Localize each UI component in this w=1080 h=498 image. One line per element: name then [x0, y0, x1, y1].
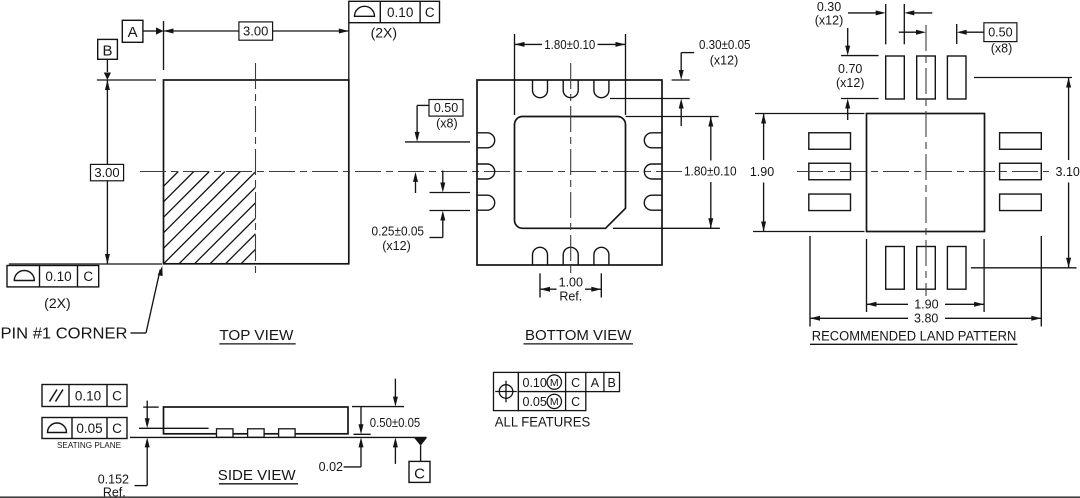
svg-text:1.80±0.10: 1.80±0.10	[544, 38, 595, 52]
svg-text:C: C	[571, 376, 580, 390]
bottom view vertical centerline	[570, 63, 572, 279]
dimension 3.00 horizontal boxed value	[239, 22, 273, 40]
land dimension 3.10 dimension line	[1068, 78, 1070, 161]
svg-text:SEATING PLANE: SEATING PLANE	[57, 440, 121, 450]
svg-text:ALL FEATURES: ALL FEATURES	[495, 415, 590, 430]
svg-text:M: M	[550, 396, 559, 408]
parallelism tolerance frame	[42, 385, 127, 407]
svg-text:BOTTOM VIEW: BOTTOM VIEW	[525, 327, 632, 344]
dimension 0.50 pitch leader and arrows	[417, 104, 429, 106]
svg-text:A: A	[128, 24, 138, 41]
svg-text:0.10: 0.10	[75, 388, 101, 403]
dimension 0.30 pin length leader and arrows	[681, 52, 694, 54]
profile tolerance frame bottom left	[7, 266, 99, 287]
bottom view bottom edge terminals (3 pins)	[533, 247, 548, 265]
dimension 0.30 pin length top tick	[672, 79, 690, 81]
svg-text:0.10: 0.10	[45, 269, 71, 284]
dimension 1.80 pad width dimension line	[515, 43, 543, 45]
dimension 3.00 horizontal left arrow	[164, 29, 174, 34]
svg-text:0.10: 0.10	[387, 5, 413, 20]
svg-text:TOP VIEW: TOP VIEW	[219, 327, 294, 344]
body bottom tick right	[354, 433, 371, 435]
svg-text:0.70: 0.70	[838, 62, 862, 76]
svg-text:SIDE VIEW: SIDE VIEW	[218, 467, 297, 484]
svg-text:C: C	[112, 388, 122, 403]
svg-text:1.80±0.10: 1.80±0.10	[684, 164, 737, 178]
svg-text:(2X): (2X)	[44, 295, 70, 311]
svg-text:1.00: 1.00	[559, 275, 583, 289]
svg-text:(x12): (x12)	[382, 239, 410, 253]
dimension 1.00 ref arrows	[540, 287, 550, 292]
land pattern bottom pads	[886, 247, 905, 290]
land dimension 0.30 arrows	[848, 12, 877, 14]
dimension 0.30 pin length lower extension	[610, 98, 690, 100]
svg-text:3.00: 3.00	[243, 24, 268, 39]
svg-text:B: B	[608, 376, 616, 390]
svg-text:C: C	[112, 421, 122, 436]
dimension 1.80 pad height extension lines	[626, 116, 719, 118]
dimension 3.00 vertical boxed value	[91, 164, 124, 180]
svg-text:0.05: 0.05	[76, 421, 102, 436]
dimension 0.50 pitch boxed value	[429, 100, 463, 117]
profile tolerance leader to corner	[348, 23, 350, 80]
datum C feature triangle	[414, 438, 427, 446]
svg-text:C: C	[425, 5, 435, 20]
svg-text:0.25±0.05: 0.25±0.05	[372, 224, 425, 238]
dimension 0.25 pin width extension lines	[430, 192, 471, 194]
land dimension 1.90 bottom arrows	[867, 302, 877, 307]
dimension 1.00 ref extension lines	[539, 273, 541, 297]
dimension 0.25 pin width arrows	[442, 171, 444, 184]
dimension 0.152 arrows	[146, 401, 148, 420]
land dimension 0.70 arrows	[847, 28, 849, 47]
dimension 1.80 pad height dimension line	[710, 117, 712, 161]
body top extension right	[352, 406, 404, 408]
dimension 3.00 horizontal right arrow	[339, 29, 349, 34]
datum B leader	[106, 59, 108, 72]
land dimension 0.50 tick	[956, 24, 958, 44]
land dimension 3.80 dimension line	[810, 317, 908, 319]
svg-text:B: B	[102, 43, 112, 60]
svg-text:0.50: 0.50	[988, 26, 1012, 40]
side view body outline	[164, 407, 349, 434]
top view horizontal centerline	[140, 171, 683, 173]
terminal top reference line	[139, 427, 209, 429]
land dimension 0.70 extension lines	[841, 55, 879, 57]
datum C symbol box	[409, 461, 430, 482]
pin 1 index hatched quadrant	[164, 172, 179, 187]
datum A leader	[143, 30, 156, 32]
dimension 1.80 pad width extension lines	[514, 34, 516, 115]
bottom view package outline	[477, 80, 662, 265]
page bottom border	[0, 496, 1080, 498]
land pattern center pad	[867, 114, 985, 232]
dimension 0.50 height arrows	[394, 379, 396, 398]
svg-text:C: C	[414, 465, 425, 482]
dimension 3.00 vertical up arrow	[105, 80, 110, 90]
svg-text:1.90: 1.90	[750, 165, 774, 179]
seating plane line	[130, 436, 427, 438]
land dimension 1.90 left extension lines	[755, 113, 865, 115]
land pattern vertical centerline	[925, 25, 927, 296]
svg-text:Ref.: Ref.	[103, 486, 126, 498]
land dimension 3.10 extension lines	[974, 77, 1072, 79]
svg-text:(x12): (x12)	[710, 54, 738, 68]
svg-text:Ref.: Ref.	[559, 290, 582, 304]
svg-text:(x8): (x8)	[436, 116, 458, 130]
svg-text:0.30±0.05: 0.30±0.05	[699, 38, 751, 52]
svg-text:0.30: 0.30	[817, 0, 841, 14]
land pattern horizontal centerline	[797, 171, 1049, 173]
bottom view top edge terminals (3 pins)	[533, 80, 548, 98]
dimension 3.00 vertical bottom extension line	[9, 263, 162, 265]
svg-text:0.05: 0.05	[523, 395, 547, 409]
land dimension 1.90 left arrows	[761, 114, 766, 124]
dimension 1.80 pad width arrows	[515, 42, 525, 47]
land dimension 0.50 boxed value	[984, 23, 1017, 42]
bottom view left edge terminals (3 pins)	[477, 133, 495, 148]
dimension 3.00 vertical down arrow	[105, 254, 110, 264]
land dimension 3.80 extension lines	[809, 236, 811, 327]
svg-text:0.10: 0.10	[523, 376, 547, 390]
svg-text:3.10: 3.10	[1056, 165, 1080, 179]
top view package body outline	[164, 80, 349, 264]
dimension 0.50 pitch extension line	[405, 141, 470, 143]
svg-text:A: A	[591, 376, 600, 390]
svg-text:3.80: 3.80	[914, 311, 938, 325]
dimension 3.00 vertical dimension line	[106, 80, 108, 264]
svg-text:RECOMMENDED LAND PATTERN: RECOMMENDED LAND PATTERN	[812, 328, 1017, 343]
dimension 1.00 ref dimension line	[540, 288, 557, 290]
svg-text:0.50±0.05: 0.50±0.05	[370, 416, 420, 430]
land dimension 1.90 bottom extension lines	[866, 239, 868, 312]
svg-text:0.152: 0.152	[98, 472, 129, 486]
dimension 0.02 arrows	[360, 407, 362, 426]
profile tolerance frame seating plane	[42, 418, 127, 439]
svg-text:0.02: 0.02	[319, 460, 343, 474]
land pattern top pads	[886, 56, 905, 99]
svg-text:3.00: 3.00	[94, 165, 119, 180]
svg-text:(x8): (x8)	[991, 42, 1013, 56]
land dimension 3.80 arrows	[810, 316, 820, 321]
svg-text:(2X): (2X)	[371, 25, 397, 41]
svg-text:C: C	[83, 269, 93, 284]
land dimension 0.50 arrows	[899, 31, 918, 33]
svg-text:0.50: 0.50	[434, 101, 458, 115]
position symbol	[499, 385, 513, 399]
svg-text:C: C	[571, 395, 580, 409]
svg-text:PIN #1 CORNER: PIN #1 CORNER	[1, 326, 128, 343]
dimension 3.00 horizontal dimension line	[164, 30, 349, 32]
dimension 3.00 horizontal extension line left	[163, 21, 165, 70]
pin #1 corner leader	[131, 332, 147, 334]
svg-text:1.90: 1.90	[914, 298, 938, 312]
svg-text:(x12): (x12)	[815, 14, 843, 28]
body top tick left	[143, 406, 159, 408]
land pattern right pads	[1000, 133, 1042, 150]
land dimension 1.90 bottom dimension line	[867, 303, 909, 305]
position tolerance composite frame	[494, 372, 519, 410]
side view terminal pads	[217, 429, 234, 438]
profile tolerance frame top right	[349, 1, 440, 22]
svg-text:M: M	[550, 377, 559, 389]
datum B symbol box	[98, 39, 118, 59]
land dimension 3.10 arrows	[1066, 78, 1071, 88]
land pattern left pads	[809, 133, 851, 150]
bottom view right edge terminals (3 pins)	[644, 133, 662, 148]
top view vertical centerline	[255, 63, 257, 277]
datum A symbol box	[122, 20, 143, 42]
land dimension 0.30 extension lines	[885, 4, 887, 44]
dimension 3.00 vertical top extension line	[97, 79, 156, 81]
dimension 1.80 pad height arrows	[708, 117, 713, 127]
svg-text:(x12): (x12)	[836, 76, 864, 90]
bottom view exposed thermal pad	[515, 117, 626, 229]
land dimension 1.90 left dimension line	[763, 114, 765, 161]
